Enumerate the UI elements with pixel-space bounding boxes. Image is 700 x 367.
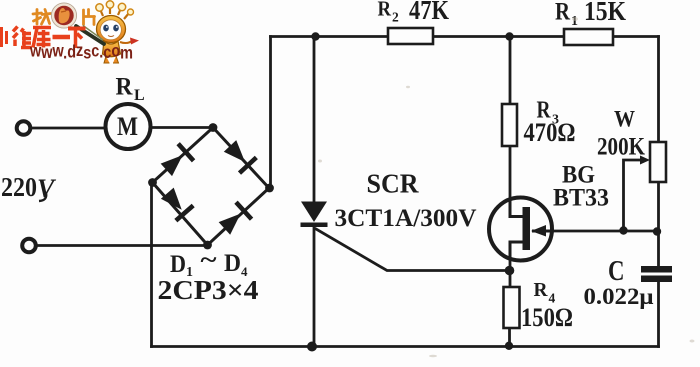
svg-text:150Ω: 150Ω bbox=[521, 303, 573, 332]
svg-text:R: R bbox=[116, 74, 134, 101]
svg-text:www.dzsc.com: www.dzsc.com bbox=[29, 40, 133, 63]
svg-text:200K: 200K bbox=[597, 134, 645, 161]
svg-text:M: M bbox=[117, 112, 138, 141]
svg-text:2: 2 bbox=[392, 10, 399, 25]
svg-text:220: 220 bbox=[1, 172, 37, 202]
svg-text:D: D bbox=[170, 251, 186, 278]
svg-text:2CP3×4: 2CP3×4 bbox=[158, 275, 259, 305]
svg-text:~: ~ bbox=[201, 247, 217, 274]
svg-text:470Ω: 470Ω bbox=[524, 118, 576, 147]
svg-text:R: R bbox=[555, 0, 571, 26]
svg-text:D: D bbox=[224, 250, 241, 277]
svg-text:V: V bbox=[37, 174, 57, 203]
svg-text:R: R bbox=[534, 279, 549, 301]
svg-text:0.022μ: 0.022μ bbox=[584, 284, 654, 309]
svg-text:1: 1 bbox=[571, 14, 578, 29]
svg-text:C: C bbox=[608, 256, 625, 287]
svg-text:BT33: BT33 bbox=[553, 185, 609, 212]
svg-text:15K: 15K bbox=[584, 0, 626, 26]
svg-text:3CT1A/300V: 3CT1A/300V bbox=[335, 205, 477, 232]
svg-text:L: L bbox=[134, 87, 145, 104]
svg-text:W: W bbox=[614, 107, 635, 132]
svg-text:47K: 47K bbox=[409, 0, 449, 25]
svg-text:SCR: SCR bbox=[367, 169, 419, 199]
svg-text:R: R bbox=[378, 0, 392, 21]
